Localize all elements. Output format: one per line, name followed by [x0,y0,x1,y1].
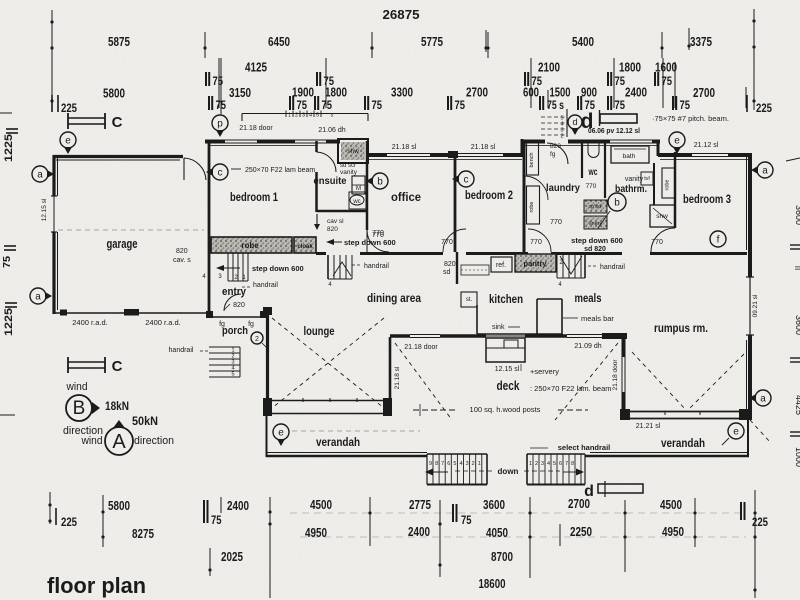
porch stairs [209,346,240,348]
corridor wall segments y252 [316,252,326,255]
svg-text:770: 770 [530,239,542,246]
svg-text:8700: 8700 [491,550,513,564]
meals bar note [563,317,578,319]
svg-text:7: 7 [565,461,568,467]
svg-text:3375: 3375 [690,35,712,49]
svg-text:75: 75 [372,100,383,112]
svg-text:3300: 3300 [391,86,413,100]
svg-text:verandah: verandah [661,436,705,450]
svg-text:7: 7 [441,461,444,467]
svg-text:75: 75 [455,100,466,112]
bottom dash-dot setout lines [290,512,740,514]
svg-text:shw: shw [347,148,359,155]
svg-text:sd 820: sd 820 [584,246,606,253]
grid circle a left upper [32,166,48,182]
section marker C top: bracket symbol [67,113,69,129]
svg-text:bedroom 1: bedroom 1 [230,190,278,204]
verandah right east edge [747,420,749,457]
front wall laundry section y141 [522,140,545,144]
front wall pier [430,153,452,157]
svg-text:5: 5 [553,461,556,467]
rumpus south window wall [620,409,630,420]
wind circle A 50kN [105,427,133,455]
front window 21.06 dh [295,139,326,141]
svg-text:lounge: lounge [304,324,335,338]
svg-text:21.18 door: 21.18 door [612,359,619,391]
svg-text:12.15 sl: 12.15 sl [41,198,48,221]
svg-text:06.06 pv 12.12 sl: 06.06 pv 12.12 sl [588,128,640,135]
svg-text:verandah: verandah [316,435,360,449]
deck door 21.18 opening [410,334,440,336]
svg-text:3: 3 [466,461,469,467]
svg-text:75: 75 [322,100,333,112]
svg-text:st.: st. [466,297,473,303]
garage door arc to entry [184,158,206,180]
svg-text:pantry: pantry [524,259,548,268]
svg-text:f: f [717,235,720,246]
kitchen south wall [390,334,410,337]
ensuite shower box on front wall [338,139,368,163]
svg-text:p: p [217,119,223,130]
svg-text:75: 75 [461,515,472,527]
svg-text:rumpus rm.: rumpus rm. [654,321,708,335]
grid circle b office [372,173,388,189]
pantry stairs down to meals [556,252,558,278]
front door opening 21.18 door [225,139,257,141]
svg-text:office: office [391,190,421,204]
svg-text:2400: 2400 [227,499,249,513]
svg-text:handrail: handrail [253,282,278,289]
svg-text:3600: 3600 [483,498,505,512]
svg-text:21.18 sl: 21.18 sl [394,366,401,389]
svg-text:step down 600: step down 600 [344,238,396,247]
svg-text:cav sl: cav sl [327,218,344,225]
svg-text:4500: 4500 [660,498,682,512]
svg-text:bedroom 2: bedroom 2 [465,188,513,202]
svg-text:3: 3 [541,461,544,467]
svg-text:3600: 3600 [794,315,800,335]
stairs right block [527,453,585,455]
svg-text:sd: sd [443,269,451,276]
svg-text:b: b [377,177,383,188]
svg-text:handrail: handrail [600,264,625,271]
entry stairs [227,253,229,281]
grid circle e top-left above garage wall [60,132,76,148]
svg-text:robe: robe [529,201,535,212]
meals east wall lower [622,392,626,413]
svg-text:garage: garage [107,237,138,251]
grid circle a right edge bedroom3 [757,162,773,178]
bedroom1 robe hatched strip [211,237,292,253]
svg-text:handrail: handrail [364,263,389,270]
svg-text:1800: 1800 [619,61,641,75]
svg-text:2700: 2700 [693,86,715,100]
svg-text:21.12 sl: 21.12 sl [694,142,719,149]
right wall window 09.21 sl [749,277,751,335]
front wall inner line laundry [524,145,658,147]
grid circle e verandah left [273,424,289,440]
dim tick x689 [688,28,690,50]
svg-text:3150: 3150 [229,86,251,100]
entry handrail note [242,286,252,288]
svg-text:robe: robe [665,179,671,190]
svg-text:ref.: ref. [496,262,506,269]
stairs left arrow [430,471,448,473]
grid circle b bathroom [608,193,626,211]
svg-text:770: 770 [372,230,384,237]
office door arc [367,230,389,252]
meals south wall [525,334,567,337]
cloak cupboard [294,237,316,253]
svg-text:8: 8 [571,461,574,467]
section marker d top: circled d with bar [568,115,582,129]
dim long extension lines row4 [218,58,220,108]
svg-text:A: A [112,431,126,453]
pantry stairs handrail note [588,265,598,267]
svg-text:bench: bench [529,153,535,168]
verandah right bottom edge [585,455,749,457]
front wall bedroom3 section y155 [658,153,692,157]
kitchen west stub wall [456,252,458,284]
svg-text:e: e [733,427,739,438]
svg-text:1: 1 [288,113,291,119]
ensuite bottom wall [317,210,368,213]
svg-text:a: a [762,166,768,177]
dim tick [661,32,663,58]
garage bottom edge with posts [53,312,207,314]
verandah left west edge [266,416,268,457]
bathroom vanity fixture [641,172,653,185]
svg-text:4: 4 [547,461,550,467]
svg-text:M: M [356,186,361,192]
svg-text:4050: 4050 [486,526,508,540]
garage top wall [53,155,183,158]
svg-text:75: 75 [211,515,222,527]
svg-text:1: 1 [478,461,481,467]
svg-text:a: a [35,292,41,303]
svg-text:vanity: vanity [340,169,358,176]
front wall segment to ensuite [326,140,340,144]
svg-text:sink: sink [492,324,505,331]
kitchen counter U [476,305,478,334]
bedroom2 window 21.18 sl [458,153,503,155]
dim tick [487,32,489,58]
svg-text:step down 600: step down 600 [571,236,623,245]
svg-text:wind: wind [81,435,103,447]
front wall bedroom1 section y141 [205,140,225,144]
svg-text:C: C [112,358,123,375]
svg-text:26875: 26875 [383,7,420,22]
svg-text:820: 820 [233,302,245,309]
grid circle c bedroom1 [212,164,228,180]
svg-text:cp'bd: cp'bd [589,204,602,210]
svg-text:21.18 sl: 21.18 sl [392,144,417,151]
svg-text:1800: 1800 [325,86,347,100]
svg-text:770: 770 [550,219,562,226]
grid circle e verandah right [728,423,744,439]
dim 75 marks row3 [205,72,207,86]
svg-text:21.18 sl: 21.18 sl [471,144,496,151]
svg-text:21.21 sl: 21.21 sl [636,423,661,430]
lounge east wall to deck [389,337,392,398]
svg-text:tvl: tvl [644,176,650,182]
grid circle p on line above bedroom1 [220,58,222,114]
svg-text:bedroom 3: bedroom 3 [683,192,731,206]
office / bedroom2 wall [454,155,457,252]
bath/bed3 robe [662,168,675,198]
wc fixture [588,143,599,158]
dim 225 bracket left top [57,95,59,112]
svg-text:2400: 2400 [625,86,647,100]
svg-text:770: 770 [441,239,453,246]
svg-text:3: 3 [302,113,305,119]
entry step arrow [222,267,240,269]
svg-text:wc: wc [588,167,598,178]
svg-text:225: 225 [752,517,769,529]
svg-text:cav. s: cav. s [173,257,191,264]
svg-text:+servery: +servery [530,367,559,376]
svg-text:1000: 1000 [794,447,800,467]
svg-text:4425: 4425 [794,395,800,415]
bedroom2 robe [527,186,540,224]
rumpus roof dashes [632,352,686,410]
front wall segment end laundry [652,140,660,144]
svg-text:1: 1 [529,461,532,467]
svg-text:2400 r.a.d.: 2400 r.a.d. [72,318,107,327]
svg-text:floor plan: floor plan [47,573,146,598]
svg-text:ensuite: ensuite [314,175,347,187]
meals east wall upper [622,339,626,357]
front wall to NE corner [728,153,752,157]
bedroom1 right wall with door [315,141,318,152]
svg-text:75: 75 [680,100,691,112]
dining stairs handrail note [352,264,362,266]
grid circle f bedroom3 [710,231,726,247]
svg-text:d: d [572,117,577,127]
svg-text:kitchen: kitchen [489,292,523,306]
svg-text:e: e [65,136,71,147]
svg-text:5: 5 [453,461,456,467]
svg-text:75: 75 [297,100,308,112]
svg-text:4950: 4950 [662,525,684,539]
svg-text:75: 75 [615,76,626,88]
dim tick x486 [485,30,487,52]
svg-text:21.06 dh: 21.06 dh [318,127,345,134]
lounge west wall [266,312,269,400]
svg-text:820: 820 [327,226,338,233]
office window 21.18 sl [387,153,430,155]
front wall office section y155 [368,153,387,157]
ensuite right wall / office left wall [366,141,369,230]
fridge box ref [491,257,512,272]
bottom extension lines [49,492,51,524]
svg-text:4: 4 [309,113,312,119]
svg-text:18600: 18600 [479,577,506,591]
svg-text:s: s [331,113,334,119]
svg-text:step down 600: step down 600 [252,264,304,273]
bath window 06.06 pv 12.12 sl [610,139,652,141]
svg-text:2700: 2700 [466,86,488,100]
svg-text:100 sq. h.wood posts: 100 sq. h.wood posts [470,405,541,414]
garage left wall upper segment [52,155,55,196]
svg-text:cloak: cloak [297,244,313,250]
svg-text:select handrail: select handrail [558,443,611,452]
svg-text:21.18 door: 21.18 door [239,125,273,132]
wc right wall [604,141,606,198]
svg-text:18kN: 18kN [105,399,129,413]
section marker C bottom [67,357,69,373]
kitchen st box [461,292,477,307]
svg-text:1500: 1500 [550,86,571,100]
laundry door 820 fg with swing [547,143,568,164]
svg-text:2025: 2025 [221,550,243,564]
grid circle a rumpus right [755,390,771,406]
dashed stair marks above laundry [541,116,565,118]
front wall segment [257,140,295,144]
bedroom3 door arc [651,228,675,252]
svg-text:deck: deck [497,379,520,393]
svg-text:2: 2 [535,461,538,467]
verandah gutter dash line [292,430,420,432]
kitchen south wall mid [440,334,486,337]
lounge south window wall [263,398,272,416]
svg-text:8275: 8275 [132,527,154,541]
svg-text:09.21 sl: 09.21 sl [752,294,759,317]
svg-text:21.09 dh: 21.09 dh [574,343,601,350]
front wall to laundry jog [503,153,524,157]
svg-text:C: C [112,114,123,131]
svg-text:laundry: laundry [546,182,580,194]
svg-text:meals bar: meals bar [581,314,614,323]
meals east door 21.18 rotated [621,357,623,392]
porch circle 2 [251,332,263,344]
dim 75 s mark [539,96,541,110]
svg-text:fg: fg [248,321,254,328]
svg-text:12.15 sl: 12.15 sl [495,366,520,373]
svg-text:770: 770 [586,183,597,190]
svg-text:225: 225 [61,103,78,115]
grid circle c bedroom2 [458,171,474,187]
svg-text:900: 900 [581,86,597,100]
svg-text:21.18 door: 21.18 door [404,344,438,351]
laundry bench [527,142,539,175]
svg-text:50kN: 50kN [132,414,158,428]
svg-text:2: 2 [560,134,563,140]
svg-text:2100: 2100 [538,61,560,75]
svg-text:wind: wind [66,381,88,393]
svg-text:bath: bath [623,153,636,160]
svg-text:2: 2 [472,461,475,467]
svg-text:fg: fg [550,151,556,158]
right edge tick [786,158,800,161]
svg-text:down: down [498,467,519,476]
dim tick [204,32,206,58]
svg-text:5775: 5775 [421,35,443,49]
svg-text:8: 8 [435,461,438,467]
svg-text:direction: direction [134,435,174,447]
down label with leaders [455,470,492,472]
svg-text:250×70 F22 lam beam: 250×70 F22 lam beam [245,167,315,174]
front wall inner line bedroom1 [209,145,316,147]
deck diagonal dashes [395,343,452,420]
svg-text:820: 820 [444,261,456,268]
svg-text:robe: robe [241,241,259,250]
svg-text:2400 r.a.d.: 2400 r.a.d. [145,318,180,327]
garage left wall window 12.15 sl [53,196,55,232]
svg-text:c: c [218,168,223,179]
porch top edge [209,316,267,318]
dim 225 bracket right top [746,95,748,112]
grid circle e above bedroom3 [669,132,685,148]
dim tick [371,32,373,58]
svg-text:75: 75 [615,100,626,112]
svg-text:e: e [278,428,284,439]
svg-text:5800: 5800 [103,87,125,101]
grid circle a left lower [30,288,46,304]
bedroom3 west wall [674,152,677,228]
front wall inner line bedroom3 [660,159,748,161]
svg-text:porch: porch [222,325,248,337]
dim extension line left x52 [51,10,53,106]
right wall rumpus [748,335,752,420]
svg-text:shw: shw [656,213,668,220]
svg-text:wc: wc [352,199,360,205]
svg-text:75: 75 [2,256,13,268]
svg-text:B: B [73,398,86,419]
svg-text:handrail: handrail [169,347,194,354]
svg-text:dining area: dining area [367,291,421,305]
svg-text:entry: entry [222,286,247,298]
svg-text:meals: meals [575,291,602,305]
svg-text:a: a [760,394,766,405]
laundry door arc 770 [524,176,548,200]
stairs right arrow [563,471,579,473]
linen cupboards hatched [584,200,607,213]
kitchen dashed bench [461,265,489,275]
bathroom east wall [653,163,655,205]
svg-text:5: 5 [316,113,319,119]
svg-text:4: 4 [459,461,462,467]
wind circle B 18kN [66,395,92,421]
svg-text:770: 770 [651,239,663,246]
bedroom1 left wall [208,141,211,253]
right wall bedroom3 [748,153,752,277]
svg-text:4950: 4950 [305,526,327,540]
deck posts note line [413,409,455,411]
svg-text:3600: 3600 [794,205,800,225]
stairs left block [427,453,487,455]
bedroom3 window 21.12 sl [692,153,728,155]
hall door arcs 770 [443,229,466,252]
svg-text:9: 9 [429,461,432,467]
svg-text:225: 225 [61,517,78,529]
ensuite wc fixture [349,192,366,209]
svg-text:e: e [674,136,680,147]
garage left wall lower segment [52,232,55,314]
svg-text:a: a [37,170,43,181]
shower box bathroom [650,205,675,227]
door head bracket with tread numbers [242,113,368,115]
bedroom2 / laundry wall [523,141,526,253]
svg-text:II: II [793,266,800,270]
svg-text:5400: 5400 [572,35,594,49]
svg-text:225: 225 [756,103,773,115]
svg-text:4125: 4125 [245,61,267,75]
servery bump [486,338,525,362]
svg-text:2: 2 [295,113,298,119]
svg-text:: 250×70 F22 lam. beam: : 250×70 F22 lam. beam [530,384,612,393]
meals window 21.09 dh [567,334,602,336]
